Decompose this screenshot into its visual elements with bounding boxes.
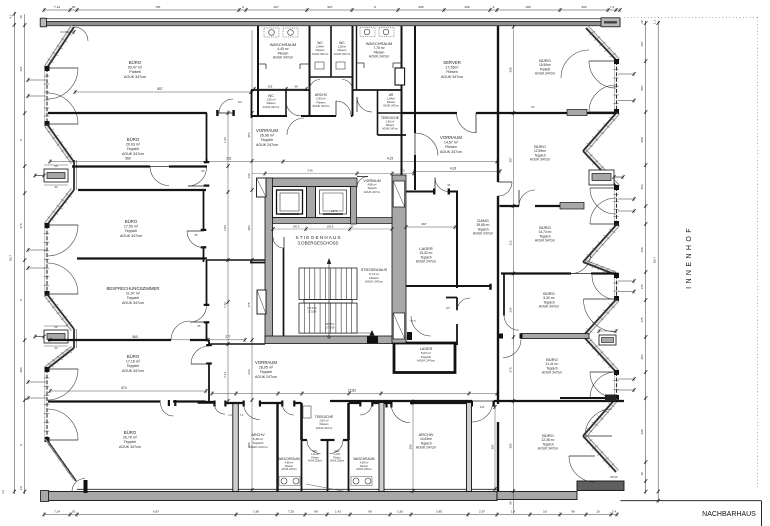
svg-text:Fliesen: Fliesen <box>320 422 329 426</box>
svg-text:136: 136 <box>247 173 251 178</box>
left dimension line inner <box>24 14 26 494</box>
wall washroomR east x401 <box>401 26 403 190</box>
svg-text:88,05: 88,05 <box>611 475 618 479</box>
svg-text:234: 234 <box>509 307 513 312</box>
svg-text:LIFT: LIFT <box>331 209 337 213</box>
svg-text:98: 98 <box>314 509 318 513</box>
core right wall <box>392 175 406 343</box>
wall x327 wc divider <box>327 440 329 492</box>
wall office3/meeting y260 <box>77 257 207 259</box>
svg-text:50,7: 50,7 <box>9 255 13 261</box>
right facade door arcs band1 <box>589 61 617 88</box>
svg-text:4,98 m²: 4,98 m² <box>367 183 376 187</box>
wall vorraum/gang y191 <box>404 191 436 193</box>
door arc office3 east <box>187 231 204 248</box>
svg-text:175: 175 <box>640 284 644 289</box>
wall y113 right section <box>402 112 458 114</box>
svg-text:14,57 m²: 14,57 m² <box>444 141 459 145</box>
svg-text:AOUK 247cm: AOUK 247cm <box>416 260 436 264</box>
wall y116 cluster bottom <box>251 115 287 117</box>
svg-text:385: 385 <box>509 443 513 448</box>
dim 560 meeting <box>50 339 245 341</box>
svg-text:Fliesen: Fliesen <box>386 123 395 127</box>
svg-text:1,69 m²: 1,69 m² <box>386 120 395 124</box>
wall y273 buero530 north <box>501 272 571 274</box>
core door bottom <box>367 336 378 344</box>
svg-text:WC: WC <box>335 449 341 453</box>
svg-text:169: 169 <box>525 5 530 9</box>
right dimension line inner <box>645 21 647 493</box>
svg-text:20,93 m²: 20,93 m² <box>126 143 141 147</box>
svg-text:98: 98 <box>368 509 372 513</box>
shower symbols washroomR <box>360 28 375 37</box>
right facade window band 1 <box>616 61 618 112</box>
core left wall <box>265 178 273 343</box>
door arc hall-niche <box>214 404 225 415</box>
bottom dimension chain <box>44 514 617 516</box>
svg-text:Teppich: Teppich <box>127 364 139 368</box>
dim 807 <box>75 91 251 93</box>
small wc cell doors <box>310 80 321 91</box>
shower niche washroomR <box>357 62 365 64</box>
wall niche y297 <box>446 297 457 299</box>
svg-text:BÜRO: BÜRO <box>127 354 140 359</box>
left facade window band 3 <box>46 369 48 440</box>
svg-text:TEEKÜCHE: TEEKÜCHE <box>381 116 400 120</box>
svg-text:7,2: 7,2 <box>240 413 244 417</box>
site boundary dotted vertical <box>757 17 759 488</box>
svg-text:Teppich: Teppich <box>124 440 136 444</box>
wall below lifts y218 <box>273 218 393 224</box>
svg-text:127: 127 <box>446 306 451 310</box>
NACHBARHAUS boundary <box>620 500 761 502</box>
svg-text:385: 385 <box>490 444 494 449</box>
stair inner wall x283 <box>283 248 285 336</box>
svg-text:90: 90 <box>55 185 58 189</box>
svg-text:WASCHRAUM: WASCHRAUM <box>278 457 299 461</box>
svg-text:AOUK 347cm: AOUK 347cm <box>119 445 141 449</box>
svg-text:330: 330 <box>640 429 644 434</box>
left facade door arcs band3 <box>47 369 78 400</box>
wall gang south y286 <box>457 285 491 287</box>
svg-text:AOUK 347cm: AOUK 347cm <box>273 56 293 60</box>
top dimension chain <box>44 9 620 11</box>
svg-text:167: 167 <box>238 100 243 104</box>
svg-text:AOUK 347cm: AOUK 347cm <box>312 52 329 56</box>
svg-text:50,7: 50,7 <box>653 257 657 263</box>
dim 416 <box>414 170 500 172</box>
svg-text:385: 385 <box>408 444 412 449</box>
right facade door arcs band2 <box>590 188 617 214</box>
svg-text:807: 807 <box>157 87 163 91</box>
interior dim column x513 <box>513 30 515 514</box>
lift shaft west <box>273 187 307 218</box>
svg-text:386: 386 <box>19 367 23 372</box>
svg-text:Fliesen: Fliesen <box>338 48 347 52</box>
door arc archv entry <box>244 404 260 420</box>
svg-text:283: 283 <box>247 225 251 230</box>
svg-text:312: 312 <box>509 240 513 245</box>
right facade diagonal 1 <box>586 28 617 61</box>
door arc buero1259 <box>519 190 535 206</box>
door arc wc159 <box>286 101 301 116</box>
left facade door arcs band1 <box>47 68 78 99</box>
interior dim br strip <box>494 405 496 490</box>
duct box washroomR <box>395 68 405 85</box>
svg-text:AOUK 347cm: AOUK 347cm <box>263 105 280 109</box>
svg-text:1,43 m²: 1,43 m² <box>311 453 319 456</box>
interior dim archiv <box>412 399 414 491</box>
door arcs wc bottom <box>307 440 321 454</box>
svg-text:AOUK 347cm: AOUK 347cm <box>120 234 142 238</box>
svg-text:AOUK 347cm: AOUK 347cm <box>535 72 555 76</box>
svg-text:1,36: 1,36 <box>223 137 227 143</box>
svg-text:254: 254 <box>640 354 644 359</box>
door arc buero1141 entry <box>503 340 521 358</box>
svg-text:2,0: 2,0 <box>19 486 23 491</box>
svg-text:BÜRO: BÜRO <box>125 219 138 224</box>
wall hall west x251 <box>251 90 253 118</box>
wall gang west x457 <box>456 192 458 289</box>
svg-text:4,4: 4,4 <box>1 490 5 494</box>
svg-text:30: 30 <box>72 509 76 513</box>
svg-text:387: 387 <box>509 157 513 162</box>
svg-text:AOUK 253cm: AOUK 253cm <box>330 460 344 463</box>
left facade diagonal 6 <box>47 440 76 481</box>
svg-text:175: 175 <box>247 302 251 307</box>
core shaft lower <box>393 313 405 339</box>
core bottom wall <box>265 336 406 344</box>
site boundary dotted horizontal <box>624 16 758 18</box>
right facade sill marks <box>618 73 634 75</box>
svg-text:560: 560 <box>132 335 138 339</box>
wall y90 washrooms <box>251 89 310 91</box>
svg-text:205: 205 <box>418 5 423 9</box>
svg-text:AOUK 253cm: AOUK 253cm <box>308 460 322 463</box>
svg-text:1,94m²: 1,94m² <box>316 45 324 49</box>
svg-text:7,14: 7,14 <box>54 5 60 9</box>
right facade door arc 6 <box>569 456 595 482</box>
door arc gang mid <box>457 298 470 311</box>
svg-text:18: 18 <box>640 472 644 476</box>
right facade door arc 5 <box>585 409 612 436</box>
door arc archiv2 entry <box>391 404 410 423</box>
svg-text:4,1: 4,1 <box>9 15 13 19</box>
svg-text:358: 358 <box>509 67 513 72</box>
svg-text:386: 386 <box>247 442 251 447</box>
left facade diagonal 4 <box>47 294 74 329</box>
svg-text:AOUK 347cm: AOUK 347cm <box>122 301 144 305</box>
svg-text:Fliesen: Fliesen <box>446 70 458 74</box>
svg-text:254: 254 <box>640 184 644 189</box>
svg-text:1,47m²: 1,47m² <box>333 453 340 456</box>
door arc waschraumR entry <box>360 403 372 415</box>
svg-text:NACHBARHAUS: NACHBARHAUS <box>702 511 756 518</box>
left dimension line outer <box>13 14 15 494</box>
svg-text:100: 100 <box>480 405 485 409</box>
core door west <box>273 237 284 248</box>
svg-text:1,59 m²: 1,59 m² <box>266 98 275 102</box>
right facade diagonal 3 <box>583 224 617 262</box>
svg-text:674: 674 <box>121 386 127 390</box>
svg-text:98: 98 <box>571 509 575 513</box>
wall y337 right column <box>521 334 589 339</box>
svg-text:AOUK 247cm: AOUK 247cm <box>256 143 278 147</box>
svg-text:VORRAUM: VORRAUM <box>255 360 277 365</box>
svg-text:28,95 m²: 28,95 m² <box>259 366 274 370</box>
svg-text:AOUK 347cm: AOUK 347cm <box>334 52 351 56</box>
svg-text:AOUK 247cm: AOUK 247cm <box>281 468 296 471</box>
svg-text:376: 376 <box>19 223 23 228</box>
door arc corridor south <box>472 401 493 422</box>
svg-text:AOUK 347cm: AOUK 347cm <box>122 152 144 156</box>
svg-text:68: 68 <box>55 164 58 168</box>
left facade door arcs band2 <box>47 225 78 256</box>
shower symbols washroomL <box>264 28 279 37</box>
wall teekueche y113 <box>378 112 402 114</box>
svg-text:7,4: 7,4 <box>610 5 615 9</box>
svg-text:9: 9 <box>493 5 495 9</box>
svg-text:AOUK 247cm: AOUK 247cm <box>369 55 389 59</box>
svg-text:7,20: 7,20 <box>288 509 294 513</box>
svg-text:21,97 m²: 21,97 m² <box>126 292 141 296</box>
left facade foot <box>84 480 88 493</box>
right facade diagonal 8 <box>583 436 616 472</box>
door arc washroomR south <box>357 97 372 112</box>
svg-text:AR: AR <box>389 93 394 97</box>
svg-text:AOUK 247cm: AOUK 247cm <box>356 468 371 471</box>
svg-text:WASCHRAUM: WASCHRAUM <box>353 457 374 461</box>
door arc hall south <box>287 118 304 135</box>
door arc vorraum-right north <box>457 113 477 133</box>
wall y401 left part <box>48 400 161 402</box>
interior dim column x252 <box>251 30 253 490</box>
dim cluster y89 <box>254 88 306 90</box>
svg-text:1,68: 1,68 <box>253 509 259 513</box>
door arc y273 gap <box>571 254 591 274</box>
dim 560/211 <box>50 161 497 163</box>
svg-text:7,14: 7,14 <box>54 509 60 513</box>
svg-text:AOUK 347cm: AOUK 347cm <box>440 150 462 154</box>
svg-text:70: 70 <box>401 169 405 173</box>
wall y398 right part <box>560 397 605 399</box>
wall washroomR west x356 <box>356 26 358 90</box>
wall y401 corridor south <box>330 400 404 402</box>
svg-text:17,55 m²: 17,55 m² <box>124 225 139 229</box>
svg-text:AOUK 247cm: AOUK 247cm <box>255 375 277 379</box>
svg-text:VORRAUM: VORRAUM <box>363 179 381 183</box>
svg-text:WC: WC <box>268 94 274 98</box>
svg-text:Teppich: Teppich <box>127 296 139 300</box>
wall stub west y261 <box>250 262 265 264</box>
left facade vertex face 1 <box>73 160 75 190</box>
svg-text:2,83 m²: 2,83 m² <box>319 419 328 423</box>
right facade door arcs band3 <box>584 299 617 332</box>
svg-text:4,16: 4,16 <box>450 166 456 170</box>
svg-text:2,97: 2,97 <box>479 509 485 513</box>
svg-text:AOUK 347cm: AOUK 347cm <box>316 426 333 430</box>
door arc vorraum-east <box>498 182 512 196</box>
wall lager south y286 <box>406 285 457 287</box>
wall teekueche west x301 <box>300 403 303 440</box>
dim 1282 <box>212 393 497 395</box>
core door top <box>357 177 368 188</box>
svg-text:6,87: 6,87 <box>153 509 159 513</box>
wall washroomL east x309 <box>309 26 311 116</box>
wc159 wall x286 <box>285 90 287 116</box>
svg-text:Teppich: Teppich <box>261 138 273 142</box>
wc fixtures <box>315 62 324 69</box>
svg-text:17,16 m²: 17,16 m² <box>126 360 141 364</box>
svg-text:2,83: 2,83 <box>223 225 227 231</box>
svg-text:26,98 m²: 26,98 m² <box>260 134 275 138</box>
washroom fixtures bottom <box>281 478 287 484</box>
svg-text:26,76 m²: 26,76 m² <box>123 436 138 440</box>
svg-text:190,5: 190,5 <box>293 225 300 229</box>
interior dim column x228 <box>227 110 229 405</box>
svg-text:270: 270 <box>509 367 513 372</box>
svg-text:167: 167 <box>273 5 278 9</box>
door arc meeting south <box>171 321 190 340</box>
corridor wall x204 office3 <box>203 190 205 231</box>
wall y190 office3 north <box>78 189 206 191</box>
svg-text:17,5/28: 17,5/28 <box>326 325 335 329</box>
right facade window band 4 <box>616 372 618 398</box>
svg-text:2,14: 2,14 <box>223 372 227 378</box>
right facade window band 2 <box>616 187 618 224</box>
svg-text:Teppich: Teppich <box>260 370 272 374</box>
dim 674 <box>50 390 206 392</box>
svg-text:Fliesen: Fliesen <box>311 457 319 459</box>
svg-text:68: 68 <box>55 325 58 329</box>
left facade diagonal 3 <box>47 190 74 225</box>
svg-text:AOUK 347cm: AOUK 347cm <box>542 371 562 375</box>
svg-text:VORRAUM: VORRAUM <box>440 135 462 140</box>
teekueche sink <box>303 406 311 418</box>
svg-text:560: 560 <box>125 157 131 161</box>
svg-text:367: 367 <box>640 41 644 46</box>
door arc office2 south <box>150 167 169 186</box>
left facade diagonal 5 <box>47 348 74 369</box>
wall x467 archiv east double <box>467 403 472 492</box>
svg-text:BÜRO: BÜRO <box>129 60 142 65</box>
svg-text:253: 253 <box>247 132 251 137</box>
stair handrail <box>304 300 352 304</box>
svg-text:AOUK 347cm: AOUK 347cm <box>539 305 559 309</box>
svg-text:3.OBERGESCHOSS: 3.OBERGESCHOSS <box>298 241 339 246</box>
svg-text:3,85: 3,85 <box>436 509 442 513</box>
svg-text:Fliesen: Fliesen <box>445 145 457 149</box>
svg-text:Fliesen: Fliesen <box>333 457 341 459</box>
door arc meeting east <box>190 306 207 323</box>
svg-text:17,26m²: 17,26m² <box>445 66 459 70</box>
dim line above core y173 <box>252 173 414 175</box>
lift divider wall <box>307 187 316 218</box>
svg-text:330: 330 <box>640 247 644 252</box>
svg-text:93,47 m²: 93,47 m² <box>128 66 143 70</box>
svg-text:Parkett: Parkett <box>129 70 140 74</box>
svg-text:1,72: 1,72 <box>223 302 227 308</box>
svg-text:267: 267 <box>421 222 426 226</box>
svg-text:12,82: 12,82 <box>348 389 356 393</box>
svg-text:AOUK 347cm: AOUK 347cm <box>365 280 384 284</box>
core west shaft boxes <box>257 178 267 197</box>
svg-text:98: 98 <box>294 84 298 88</box>
top exterior wall <box>42 19 620 22</box>
svg-text:30: 30 <box>72 5 76 9</box>
svg-text:9: 9 <box>242 5 244 9</box>
svg-text:AOUK 347cm: AOUK 347cm <box>535 239 555 243</box>
svg-text:AOUK 347cm: AOUK 347cm <box>441 75 463 79</box>
left facade top door detail <box>74 27 88 41</box>
stair direction arrow <box>328 262 330 338</box>
svg-text:AOUK 247cm: AOUK 247cm <box>417 359 436 363</box>
svg-text:S T I E G E N H A U S: S T I E G E N H A U S <box>295 235 340 240</box>
svg-text:AOUK 247cm: AOUK 247cm <box>383 104 399 108</box>
left facade diagonal 2 <box>47 124 74 162</box>
wall hall south y344 <box>209 343 265 345</box>
right facade diagonal 7 <box>583 398 616 436</box>
svg-text:AOUK 347cm: AOUK 347cm <box>312 104 330 108</box>
svg-text:9: 9 <box>374 5 376 9</box>
svg-text:Fliesen: Fliesen <box>267 101 276 105</box>
wall washroomL west x258 <box>257 26 259 116</box>
svg-text:AOUK 247cm: AOUK 247cm <box>249 445 268 449</box>
corridor party wall x498 <box>497 26 499 182</box>
wall meeting/office4 y340 <box>48 339 171 341</box>
right facade window band 3 <box>616 275 618 299</box>
svg-text:15 STG: 15 STG <box>326 322 335 326</box>
wall office2/office3 y166 <box>72 165 150 167</box>
left facade vertex window 1 <box>44 169 68 182</box>
right facade vertex window 3 <box>599 335 616 345</box>
corridor wall x206 meeting <box>206 260 208 306</box>
svg-text:VORRAUM: VORRAUM <box>256 128 278 133</box>
svg-text:BÜRO: BÜRO <box>127 137 140 142</box>
wall wc bottom y77 <box>310 76 353 78</box>
svg-text:AOUK 247cm: AOUK 247cm <box>416 446 436 450</box>
core top wall <box>265 178 357 187</box>
corridor wall x209 office4 <box>208 340 210 346</box>
corridor wall x206 upper <box>206 113 208 163</box>
wall teekueche y135 <box>378 134 407 136</box>
exterior wall foot right <box>577 481 624 491</box>
wall y206 right column <box>500 205 520 207</box>
wall x277 cluster <box>276 403 278 492</box>
wall teekueche x377 <box>377 90 379 135</box>
wall wc east x352 <box>352 26 354 116</box>
svg-text:275: 275 <box>640 317 644 322</box>
svg-text:17,5/28: 17,5/28 <box>308 309 317 313</box>
door arc lager2 <box>411 316 431 336</box>
svg-text:233: 233 <box>247 369 251 374</box>
wall waschraumR east x381 double <box>379 403 384 492</box>
svg-text:AOUK 247cm: AOUK 247cm <box>364 190 381 194</box>
door arc wc159 entry <box>219 99 233 113</box>
left facade vertex face 2 <box>73 329 75 348</box>
svg-text:AOUK 247cm: AOUK 247cm <box>473 232 493 236</box>
svg-text:TEEKÜCHE: TEEKÜCHE <box>315 415 334 419</box>
door arc archv <box>336 101 351 116</box>
svg-text:AOUK 347cm: AOUK 347cm <box>124 75 146 79</box>
wall wc divider x331 <box>330 26 332 77</box>
lobby wall x353 <box>351 187 357 225</box>
svg-text:AOUK 347cm: AOUK 347cm <box>538 447 558 451</box>
right facade door arcs band4 <box>590 372 617 398</box>
svg-text:9,5 STG: 9,5 STG <box>307 306 317 310</box>
svg-text:7,4: 7,4 <box>612 509 617 513</box>
svg-text:781: 781 <box>155 5 160 9</box>
